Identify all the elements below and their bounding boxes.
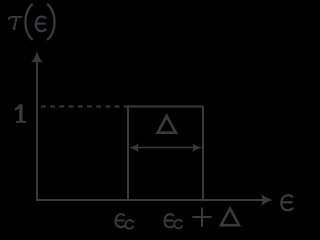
right parenthesis [48,5,55,40]
Delta label inside box [155,113,178,134]
epsilon in tau() [36,17,46,31]
double arrow left head [129,143,139,152]
y-axis [36,58,38,201]
x-axis arrowhead [261,194,274,206]
box from eps_c to eps_c+Delta [128,107,203,201]
tick label eps_c epsilon [116,214,125,227]
label 1 [15,104,26,123]
double arrow right head [192,143,202,152]
tick label eps_c+Delta epsilon [165,214,174,227]
left parenthesis [25,5,32,40]
x-axis [36,199,265,201]
dashed level line at height 1 [41,106,128,108]
Delta in bottom label [219,206,241,227]
double arrow line [133,147,198,149]
label tau [9,17,22,29]
epsilon label at x-axis end [281,195,292,210]
plus sign [192,208,211,227]
tick label eps_c subscript c [125,220,133,229]
y-axis arrowhead [31,51,43,64]
tick label eps_c+Delta subscript c [174,220,182,229]
